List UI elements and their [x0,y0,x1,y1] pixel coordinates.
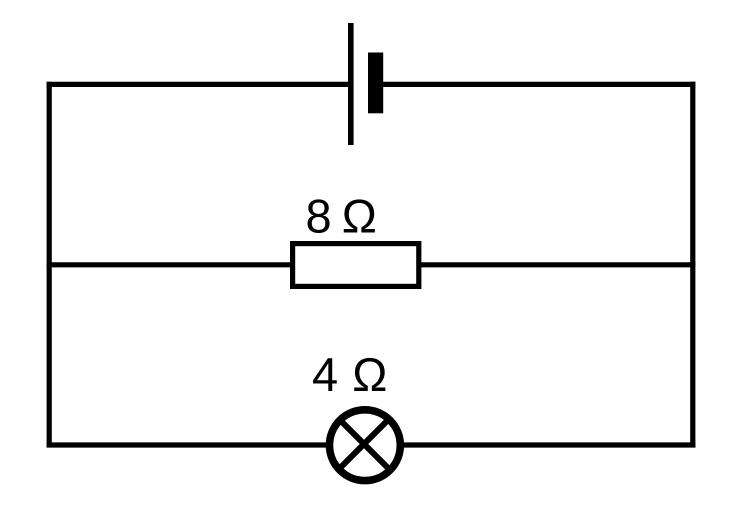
lamp L1 [330,410,401,481]
wire bottom-left segment [47,442,328,447]
wire top-right segment [381,82,695,87]
wire top-left segment [47,82,350,87]
wire right vertical [690,82,695,448]
resistor R1 [293,244,419,287]
svg-text:8 Ω: 8 Ω [306,190,377,243]
battery V1 [351,23,383,145]
wire bottom-right segment [402,442,695,447]
wire middle-left segment [47,262,293,267]
wire left vertical [47,82,52,448]
svg-text:4 Ω: 4 Ω [312,348,387,401]
wire middle-right segment [419,262,695,267]
